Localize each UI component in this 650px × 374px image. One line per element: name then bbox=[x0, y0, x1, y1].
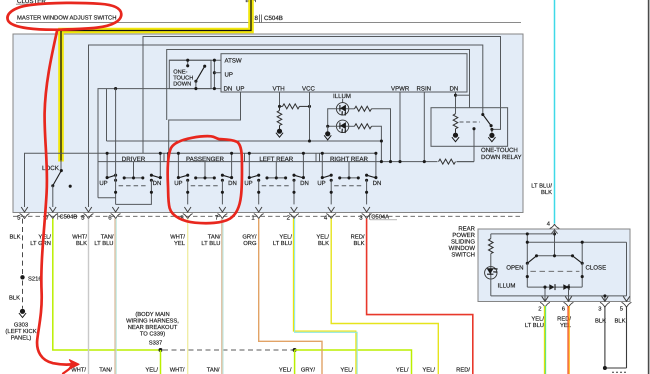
svg-text:YEL/: YEL/ bbox=[422, 366, 435, 373]
wire switch common rail bbox=[25, 153, 378, 207]
image right border bbox=[648, 0, 650, 374]
svg-text:6: 6 bbox=[562, 306, 565, 313]
resistor R-vth-h bbox=[280, 105, 283, 107]
wire YEL/LT GRN drop bbox=[160, 350, 162, 374]
svg-text:2: 2 bbox=[538, 306, 541, 313]
wire mid rail bbox=[107, 140, 382, 142]
junction rail D bbox=[114, 87, 117, 90]
wire C504B header line bbox=[16, 22, 521, 24]
svg-text:BLK: BLK bbox=[615, 319, 626, 325]
wire BLK to ground bbox=[22, 281, 24, 309]
svg-text:3: 3 bbox=[598, 306, 601, 313]
cluster box (top, cut off) bbox=[16, 0, 521, 23]
svg-text:LOCK: LOCK bbox=[42, 165, 60, 172]
bottom pin brackets bbox=[540, 302, 550, 307]
switch leftrear-dn bbox=[302, 153, 304, 177]
svg-text:MASTER WINDOW ADJUST SWITCH: MASTER WINDOW ADJUST SWITCH bbox=[17, 15, 116, 22]
wire YEL/LT GRN branch right bbox=[295, 350, 412, 374]
wire from rail D to mid rail bbox=[106, 89, 108, 141]
wire lock feed bbox=[60, 160, 62, 171]
wire YEL/LT GRN branch down bbox=[294, 350, 296, 374]
splice S216 bbox=[20, 275, 24, 279]
wire rail A bbox=[143, 37, 501, 154]
wire lamp left tie bbox=[328, 109, 349, 127]
wire VCC pin bbox=[309, 92, 311, 141]
wire ATSW row bbox=[169, 59, 221, 61]
wire lock to pin 7 bbox=[52, 186, 54, 207]
mech link dashed bbox=[334, 185, 363, 187]
svg-text:TAN/: TAN/ bbox=[99, 366, 112, 373]
svg-text:BLK: BLK bbox=[354, 241, 365, 247]
switch rightrear-dn bbox=[375, 153, 377, 177]
wire leftrear up output bbox=[258, 180, 260, 204]
svg-text:ORG: ORG bbox=[243, 240, 257, 247]
wire relay DN pin to coil bbox=[455, 92, 457, 114]
svg-text:SWITCH: SWITCH bbox=[451, 251, 475, 258]
wire relay UP pin jog bbox=[169, 92, 241, 153]
switch rightrear-up bbox=[321, 153, 323, 177]
wire rail C bbox=[167, 50, 470, 121]
diode D1 bbox=[549, 284, 554, 290]
svg-text:YEL/: YEL/ bbox=[316, 233, 329, 240]
wire RED/BLK (pin 3) bbox=[367, 219, 473, 374]
annotation arrowhead bbox=[69, 360, 80, 370]
svg-text:5: 5 bbox=[620, 307, 623, 313]
svg-text:YEL/: YEL/ bbox=[340, 366, 353, 373]
wire UP row bbox=[214, 72, 221, 74]
common bar bbox=[267, 162, 286, 178]
svg-text:C504B: C504B bbox=[264, 15, 283, 22]
wire BLK tie bbox=[605, 367, 627, 369]
svg-text:YEL/: YEL/ bbox=[279, 233, 292, 240]
svg-text:OPEN: OPEN bbox=[506, 265, 523, 272]
wire rightrear dn output bbox=[366, 180, 368, 204]
annotation circle around PASSENGER bbox=[168, 136, 242, 223]
svg-text:WHT/: WHT/ bbox=[72, 233, 87, 240]
wire rightrear up output bbox=[330, 180, 332, 204]
svg-text:REAR: REAR bbox=[458, 225, 475, 232]
wire pin4 feed bbox=[554, 229, 556, 256]
svg-text:VTH: VTH bbox=[273, 86, 285, 93]
svg-text:POWER: POWER bbox=[452, 232, 475, 239]
mech link dashed bbox=[191, 185, 220, 187]
wire lamp2 out bbox=[372, 126, 382, 161]
contact stub bbox=[187, 60, 189, 66]
label DRIVER bbox=[163, 153, 165, 161]
wire YEL/LT BLU (pin 2) green bbox=[543, 306, 545, 374]
svg-text:DOWN: DOWN bbox=[173, 81, 191, 87]
svg-text:LT BLU: LT BLU bbox=[201, 241, 220, 247]
connector dashed line bbox=[13, 215, 520, 217]
mech link dashed bbox=[119, 185, 149, 187]
common bar bbox=[196, 162, 215, 178]
annotation circle around MASTER WINDOW ADJUST SWITCH bbox=[7, 3, 121, 30]
common bar bbox=[340, 162, 359, 178]
svg-text:YEL: YEL bbox=[174, 241, 186, 247]
lamp L2 bbox=[336, 120, 348, 132]
svg-text:RED/: RED/ bbox=[351, 233, 365, 240]
svg-text:8: 8 bbox=[255, 15, 259, 22]
label LEFT REAR bbox=[245, 153, 317, 161]
svg-text:LT BLU/: LT BLU/ bbox=[531, 183, 552, 190]
ground G303 bbox=[20, 309, 25, 314]
svg-text:GRY/: GRY/ bbox=[301, 366, 315, 373]
wire WHT/YEL (pin 8) bbox=[187, 219, 189, 374]
svg-text:ILLUM: ILLUM bbox=[498, 283, 516, 290]
svg-text:UP: UP bbox=[174, 180, 182, 187]
svg-text:DN: DN bbox=[300, 180, 309, 187]
resistor R-l1 bbox=[349, 108, 355, 110]
wire VTH pin bbox=[279, 92, 281, 106]
svg-text:NEAR BREAKOUT: NEAR BREAKOUT bbox=[128, 324, 178, 331]
ground (contact) bbox=[489, 133, 494, 138]
splice S337 bbox=[159, 348, 163, 352]
svg-text:PANEL): PANEL) bbox=[11, 335, 32, 342]
switch relay contacts bbox=[481, 113, 484, 116]
svg-text:TAN/: TAN/ bbox=[208, 233, 221, 240]
svg-text:YEL/: YEL/ bbox=[145, 366, 158, 373]
svg-text:DN: DN bbox=[228, 180, 237, 187]
resistor R-vth-v bbox=[279, 106, 281, 110]
label PASSENGER bbox=[168, 153, 243, 161]
svg-text:UP: UP bbox=[99, 180, 107, 187]
svg-text:DN: DN bbox=[224, 86, 233, 93]
wire BLK (pin 5) dashed bbox=[22, 219, 24, 275]
lamp L1 bbox=[336, 103, 348, 115]
svg-text:ATSW: ATSW bbox=[225, 58, 242, 65]
wire VPWR pin bbox=[399, 92, 401, 162]
wire TAN/LT BLU (pin 7) bbox=[221, 219, 223, 374]
relay coil bbox=[453, 114, 458, 129]
ground (coil) bbox=[453, 133, 458, 138]
svg-text:CLOSE: CLOSE bbox=[586, 265, 607, 272]
svg-text:UP: UP bbox=[317, 180, 325, 187]
wire bus tie bbox=[213, 60, 215, 88]
svg-text:YEL/: YEL/ bbox=[396, 366, 409, 373]
wire TAN/LT BLU (pin 6) bbox=[114, 219, 116, 374]
svg-text:S216: S216 bbox=[28, 275, 42, 282]
connector C504A bbox=[369, 213, 371, 219]
svg-text:VCC: VCC bbox=[302, 86, 315, 93]
wire driver up output (pin 6 column) bbox=[115, 89, 117, 205]
svg-text:LT BLU: LT BLU bbox=[94, 241, 113, 247]
wire rail D bbox=[98, 89, 221, 198]
switch one-touch lever bbox=[196, 66, 205, 81]
wire leftrear dn output bbox=[293, 180, 295, 204]
svg-text:SLIDING: SLIDING bbox=[451, 238, 475, 245]
wire passenger up output bbox=[187, 180, 189, 204]
svg-text:WHT/: WHT/ bbox=[170, 233, 185, 240]
wire YEL/LT GRN (pin 7) bbox=[53, 219, 161, 350]
svg-text:(LEFT KICK: (LEFT KICK bbox=[5, 328, 36, 335]
svg-text:BLK: BLK bbox=[318, 241, 329, 247]
svg-text:ILLUM: ILLUM bbox=[333, 93, 351, 100]
wire BLK (pin 5) bbox=[626, 306, 628, 368]
common bar bbox=[537, 255, 573, 257]
svg-text:UP: UP bbox=[236, 86, 244, 93]
wire lamp1 out bbox=[372, 109, 391, 162]
svg-text:LT BLU: LT BLU bbox=[273, 241, 292, 247]
pin brackets bbox=[20, 214, 30, 219]
svg-text:YEL/: YEL/ bbox=[531, 315, 544, 322]
svg-text:BLK: BLK bbox=[9, 295, 20, 301]
diode row bbox=[527, 286, 582, 288]
wire bottom rail bbox=[491, 242, 627, 296]
wire BLK dashed stub bbox=[612, 371, 627, 373]
wire WHT/BLK (pin 5) bbox=[88, 219, 90, 374]
svg-text:(BODY MAIN: (BODY MAIN bbox=[135, 311, 169, 318]
master window adjust switch box bbox=[13, 34, 523, 213]
svg-text:TO C339): TO C339) bbox=[140, 331, 165, 338]
svg-text:LT GRN: LT GRN bbox=[30, 240, 51, 247]
wire YEL (power feed from cluster pin 8) bbox=[61, 0, 251, 162]
wire return jog bbox=[98, 197, 116, 199]
resistor R-illum bbox=[490, 234, 492, 239]
switch LOCK lever bbox=[53, 171, 62, 186]
wire open pivot feed bbox=[526, 234, 528, 263]
wire passenger dn output bbox=[221, 180, 223, 204]
wire label band line bbox=[98, 161, 474, 163]
svg-text:BLK: BLK bbox=[541, 190, 552, 196]
svg-text:DN: DN bbox=[153, 180, 162, 187]
svg-text:UP: UP bbox=[225, 72, 233, 79]
switch leftrear-up bbox=[248, 153, 250, 177]
lamp ILLUM bbox=[485, 267, 497, 279]
wire YEL/LT BLU (pin 2) bbox=[293, 219, 356, 374]
wire GRY/ORG (pin 1) bbox=[259, 219, 322, 374]
pin numbers bbox=[17, 214, 363, 221]
bottom pin arrows bbox=[542, 296, 549, 301]
svg-text:WIRING HARNESS,: WIRING HARNESS, bbox=[126, 318, 179, 325]
wire close pivot feed bbox=[581, 242, 583, 263]
svg-text:C504B: C504B bbox=[60, 213, 78, 220]
common bar bbox=[124, 162, 143, 178]
switch driver-up bbox=[106, 153, 108, 177]
svg-text:DOWN RELAY: DOWN RELAY bbox=[481, 154, 522, 161]
wire LT BLU/BLK bbox=[554, 0, 556, 224]
harness note S337 bbox=[126, 311, 179, 346]
diode D2 bbox=[563, 284, 568, 290]
svg-text:S337: S337 bbox=[149, 339, 163, 346]
wire close leg bbox=[581, 263, 583, 287]
switch passenger-up bbox=[177, 153, 179, 177]
mech link dashed bbox=[262, 185, 291, 187]
pin VTH network bbox=[276, 92, 311, 143]
svg-text:RED/: RED/ bbox=[456, 366, 470, 373]
mech link dashed bbox=[530, 270, 579, 272]
svg-text:DN: DN bbox=[450, 86, 459, 93]
svg-text:WHT/: WHT/ bbox=[170, 366, 185, 373]
svg-text:TAN/: TAN/ bbox=[101, 233, 114, 240]
svg-text:GRY/: GRY/ bbox=[242, 233, 256, 240]
switch box bbox=[478, 229, 630, 302]
svg-text:TAN/: TAN/ bbox=[207, 366, 220, 373]
mech link dashed bbox=[460, 121, 481, 123]
ground bbox=[325, 131, 330, 136]
annotation long stroke with arrow bbox=[37, 31, 71, 365]
svg-text:DN: DN bbox=[373, 180, 382, 187]
wire YEL/BLK (pin 4) bbox=[331, 219, 438, 374]
switch passenger-dn bbox=[231, 153, 233, 177]
wire RSIN pin bbox=[423, 92, 425, 162]
resistor R-rsin bbox=[439, 159, 456, 164]
wire BLK (pin 3) bbox=[604, 306, 606, 368]
svg-text:BLK: BLK bbox=[10, 234, 21, 240]
svg-text:WINDOW: WINDOW bbox=[449, 245, 476, 252]
wire open leg bbox=[526, 263, 528, 287]
wire pin6 stub bbox=[568, 287, 570, 301]
svg-text:YEL/: YEL/ bbox=[279, 366, 292, 373]
wire arrows into connector bbox=[21, 207, 28, 212]
wire lamp feed bbox=[342, 99, 344, 103]
svg-text:G303: G303 bbox=[14, 321, 28, 328]
wire pin2 stub bbox=[544, 287, 546, 301]
svg-text:YEL: YEL bbox=[560, 323, 572, 329]
label bbox=[449, 225, 476, 258]
svg-text:UP: UP bbox=[244, 180, 252, 187]
wire driver dn output bbox=[116, 180, 152, 204]
svg-text:VPWR: VPWR bbox=[391, 86, 410, 93]
svg-text:LT BLU: LT BLU bbox=[525, 323, 544, 329]
wire DN tie to rail C bbox=[456, 94, 470, 96]
svg-text:RSIN: RSIN bbox=[417, 86, 432, 93]
label RIGHT REAR bbox=[319, 153, 321, 161]
wire rail B bbox=[89, 45, 483, 207]
switch driver-dn bbox=[159, 153, 161, 177]
svg-text:C504A: C504A bbox=[371, 213, 389, 220]
wire hidden jumper dashed bbox=[163, 349, 295, 351]
wire RED/YEL (pin 6) orange bbox=[567, 306, 569, 374]
wire pin3 stub bbox=[604, 296, 606, 302]
resistor R-l2 bbox=[349, 125, 355, 127]
wire rsin riser bbox=[457, 129, 475, 162]
ground bbox=[277, 129, 282, 134]
wire illum rail bbox=[491, 233, 555, 235]
connector C504B bbox=[57, 213, 59, 219]
svg-text:BLK: BLK bbox=[76, 241, 87, 247]
